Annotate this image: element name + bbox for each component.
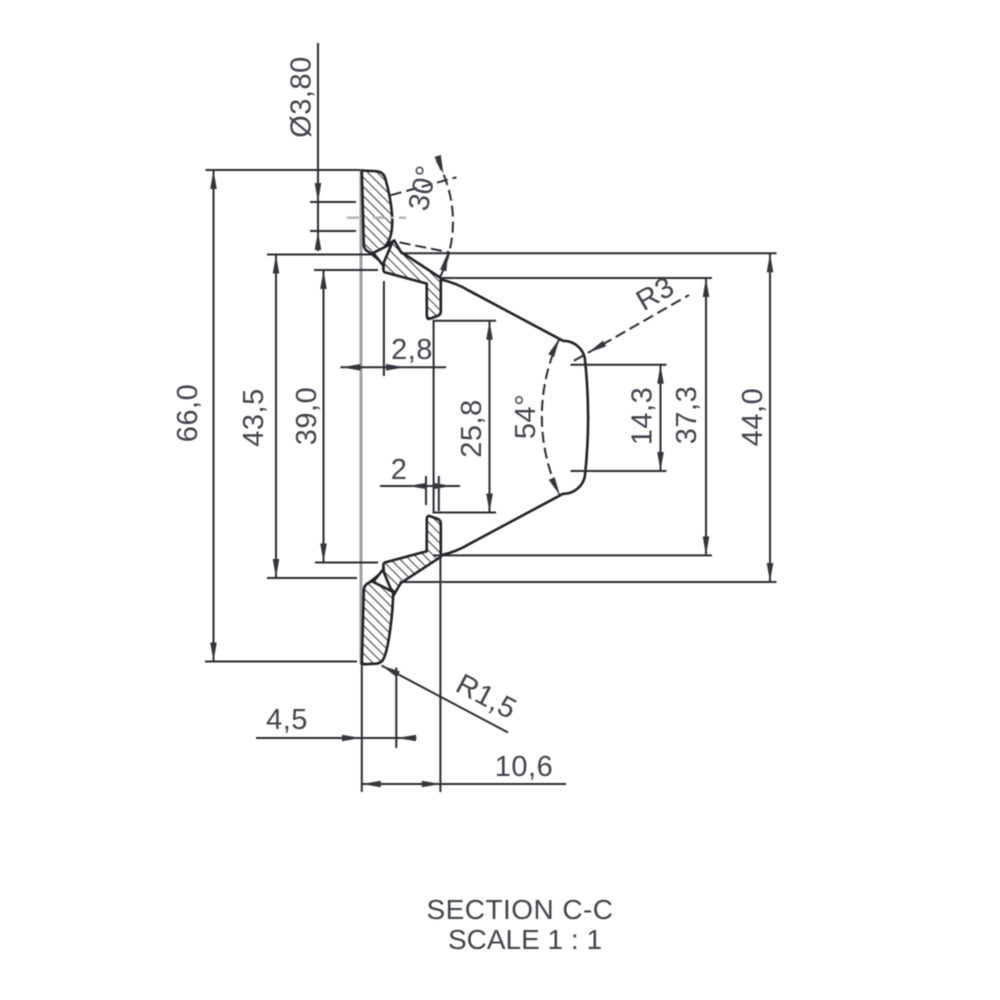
dim diameter 3,80 bbox=[310, 201, 356, 203]
leader R1,5 bbox=[382, 666, 509, 733]
angle dim 54 bbox=[542, 339, 560, 496]
flange top cut section (hatched) bbox=[362, 171, 441, 319]
dim 37,3 bbox=[441, 277, 712, 279]
flange bottom cut section bbox=[362, 516, 441, 664]
dim 14,3 bbox=[571, 364, 667, 366]
svg-text:37,3: 37,3 bbox=[671, 386, 703, 444]
svg-text:25,8: 25,8 bbox=[456, 399, 488, 457]
svg-text:43,5: 43,5 bbox=[238, 388, 270, 446]
grey hole centerline bbox=[347, 216, 406, 218]
dim 10,6 bbox=[439, 556, 441, 792]
dim 44,0 bbox=[401, 252, 777, 254]
dim 4,5 bbox=[361, 666, 363, 792]
svg-text:44,0: 44,0 bbox=[737, 388, 769, 446]
svg-text:Ø3,80: Ø3,80 bbox=[286, 56, 318, 138]
svg-text:SCALE 1 : 1: SCALE 1 : 1 bbox=[448, 924, 602, 955]
dim 66,0 bbox=[206, 169, 361, 171]
V notch white gap bbox=[373, 244, 392, 266]
angle dim 30 bbox=[391, 177, 457, 195]
dim 43,5 bbox=[267, 254, 374, 256]
svg-text:SECTION C-C: SECTION C-C bbox=[427, 894, 614, 925]
dim 2 bbox=[425, 476, 427, 505]
svg-text:10,6: 10,6 bbox=[495, 751, 553, 783]
svg-text:2: 2 bbox=[391, 454, 408, 486]
grey back-face extension line bbox=[360, 169, 363, 664]
leader R3 bbox=[574, 295, 689, 361]
dim 2,8 bbox=[383, 281, 385, 376]
dim 25,8 bbox=[433, 320, 497, 322]
cone silhouette and dome outline bbox=[441, 280, 588, 556]
svg-text:14,3: 14,3 bbox=[627, 387, 659, 445]
svg-text:66,0: 66,0 bbox=[172, 384, 204, 442]
svg-text:2,8: 2,8 bbox=[391, 334, 433, 366]
svg-text:39,0: 39,0 bbox=[291, 387, 323, 445]
V notch white gap (bottom) bbox=[373, 569, 392, 591]
svg-text:54°: 54° bbox=[510, 394, 542, 439]
dim 39,0 bbox=[314, 269, 378, 271]
svg-text:4,5: 4,5 bbox=[266, 704, 308, 736]
